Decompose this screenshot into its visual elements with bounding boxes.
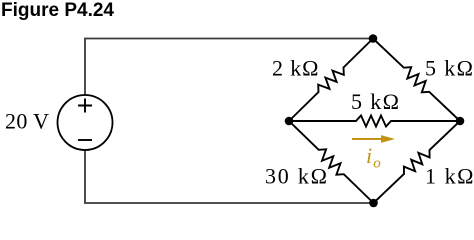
svg-text:20 V: 20 V [5, 109, 49, 134]
svg-text:2 kΩ: 2 kΩ [272, 56, 319, 81]
title Figure P4.24 [1, 0, 114, 22]
resistor 2 kOhm (left node to top node) [289, 39, 373, 122]
resistor 5 kOhm (top node to right node) [373, 39, 460, 122]
svg-text:5 kΩ: 5 kΩ [351, 89, 399, 114]
label i_o [366, 143, 381, 172]
label 5 kOhm middle [351, 89, 399, 114]
label 20 V [5, 109, 49, 134]
svg-text:o: o [373, 156, 381, 172]
label 30 kOhm [265, 164, 327, 189]
svg-text:i: i [366, 143, 372, 168]
resistor 1 kOhm (bottom node to right node) [374, 121, 461, 203]
node left [285, 117, 294, 126]
label 1 kOhm [425, 164, 474, 189]
svg-text:30 kΩ: 30 kΩ [265, 164, 327, 189]
node bottom [369, 199, 378, 208]
resistor 5 kOhm (middle, left node to right node) [289, 116, 460, 127]
voltage source V 20V [58, 95, 113, 150]
current arrow i_o [352, 135, 395, 143]
svg-text:1 kΩ: 1 kΩ [425, 164, 474, 189]
label 2 kOhm [272, 56, 319, 81]
svg-text:5 kΩ: 5 kΩ [425, 56, 473, 81]
wire top from source to top node [85, 39, 373, 96]
label 5 kOhm top right [425, 56, 473, 81]
wire bottom from source to bottom node [85, 150, 374, 203]
node top [369, 34, 378, 43]
resistor 30 kOhm (left node to bottom node) [289, 121, 374, 203]
node right [456, 117, 465, 126]
